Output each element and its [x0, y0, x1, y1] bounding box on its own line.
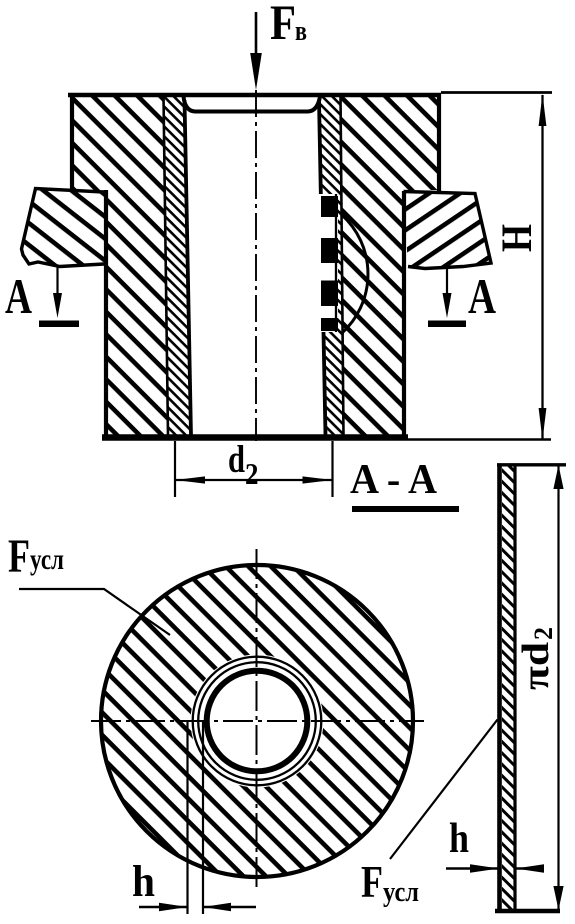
strip right edge — [513, 464, 516, 911]
pi d2 dimension line — [557, 465, 559, 910]
section arrow left: stem — [56, 266, 58, 298]
section arrow left: head — [53, 293, 62, 318]
body left edge — [104, 190, 108, 437]
d2 extension line left — [174, 441, 176, 497]
A-A underline — [352, 506, 459, 512]
bore wall left — [185, 100, 192, 436]
H arrow down — [539, 408, 547, 440]
strip left edge — [497, 464, 502, 911]
h dimension at strip: left line — [446, 867, 499, 869]
svg-text:2: 2 — [529, 627, 558, 640]
thread zone: white gap over right wall — [319, 194, 339, 332]
section arrow right: stem — [446, 268, 448, 298]
h dimension right segment — [203, 906, 256, 908]
svg-text:h: h — [132, 857, 155, 906]
bottom face edge — [102, 434, 408, 441]
horizontal centerline — [91, 720, 424, 722]
force arrow Fv stem — [255, 12, 258, 60]
vertical centerline — [256, 549, 258, 888]
bore entry radius line — [184, 97, 321, 112]
left ear (support plate, broken) — [22, 189, 105, 267]
bore wall right — [319, 100, 326, 436]
thread runout arc — [342, 215, 368, 333]
bottom extension line to H — [408, 438, 551, 441]
sleeve left wall, fine hatch — [164, 96, 192, 436]
H arrow up — [539, 94, 547, 126]
h extension line left — [186, 720, 188, 914]
ring thin circle inner — [198, 662, 316, 780]
sleeve outer line left — [164, 96, 169, 436]
sleeve outer line right — [341, 96, 344, 436]
top extension line to H — [441, 91, 552, 94]
svg-text:2: 2 — [245, 456, 259, 491]
section arrow right: blade — [428, 321, 466, 328]
vertical centerline upper view — [255, 90, 257, 441]
die block body with flange, coarse hatch fill — [70, 93, 440, 438]
svg-text:πd: πd — [515, 642, 557, 690]
outer circle — [101, 565, 413, 877]
top face edge — [68, 93, 441, 98]
strip fine hatch — [502, 466, 514, 909]
thread tooth 4 — [321, 318, 338, 331]
svg-text:A - A: A - A — [350, 457, 438, 503]
section arrow left: blade — [39, 321, 79, 328]
right ear (support plate, broken) — [404, 192, 492, 269]
d2 extension line right — [331, 441, 333, 497]
h dimension at strip: right line — [516, 867, 542, 869]
svg-text:d: d — [228, 438, 245, 481]
d2 arrow left — [175, 476, 205, 483]
svg-text:A: A — [5, 268, 32, 324]
h dimension left segment — [139, 906, 188, 908]
thread tooth 2 — [321, 238, 338, 263]
thread tooth 1 — [321, 196, 338, 217]
hatched disc with hole — [101, 565, 413, 877]
leader F_usl top — [19, 589, 170, 635]
svg-text:F: F — [270, 0, 296, 50]
svg-text:A: A — [468, 268, 496, 324]
bore (white) — [184, 96, 326, 438]
svg-text:F: F — [8, 530, 30, 583]
thread tooth 3 — [321, 281, 338, 307]
flange left edge — [70, 93, 74, 190]
bore circle (thick) — [207, 671, 308, 772]
pi d2 arrow down — [553, 886, 563, 910]
ring thin circle outer — [193, 657, 322, 786]
h strip arrow left-pointing — [516, 864, 545, 873]
pi d2 arrow up — [553, 465, 563, 489]
d2 arrow right — [303, 476, 333, 483]
flange right edge — [437, 93, 441, 191]
body right edge — [402, 191, 406, 437]
section arrow right: head — [443, 293, 452, 318]
h arrow left-pointing — [203, 903, 231, 911]
h arrow right-pointing — [159, 903, 188, 911]
svg-text:в: в — [295, 15, 307, 47]
sleeve right wall, fine hatch — [319, 96, 344, 436]
d2 dimension line — [175, 479, 333, 481]
h strip arrow right-pointing — [470, 864, 499, 873]
strip bottom edge + extension — [495, 909, 560, 914]
svg-text:h: h — [449, 816, 469, 862]
svg-text:усл: усл — [383, 876, 419, 908]
force arrow Fv head — [250, 53, 262, 90]
leader F_usl bottom — [390, 720, 498, 860]
svg-text:H: H — [494, 224, 541, 252]
H dimension line — [541, 95, 543, 439]
thread root line — [335, 194, 337, 332]
strip top edge + extension — [497, 463, 566, 466]
svg-text:F: F — [361, 857, 383, 907]
svg-text:усл: усл — [30, 543, 64, 576]
h extension line right — [202, 720, 204, 914]
